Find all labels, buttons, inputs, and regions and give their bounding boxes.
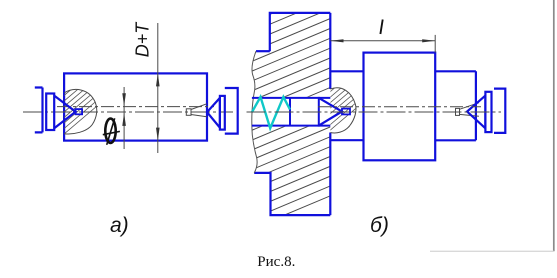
svg-text:D+T: D+T — [133, 21, 153, 58]
svg-text:а): а) — [110, 214, 129, 237]
svg-text:Рис.8.: Рис.8. — [257, 254, 295, 270]
svg-text:б): б) — [370, 214, 389, 237]
